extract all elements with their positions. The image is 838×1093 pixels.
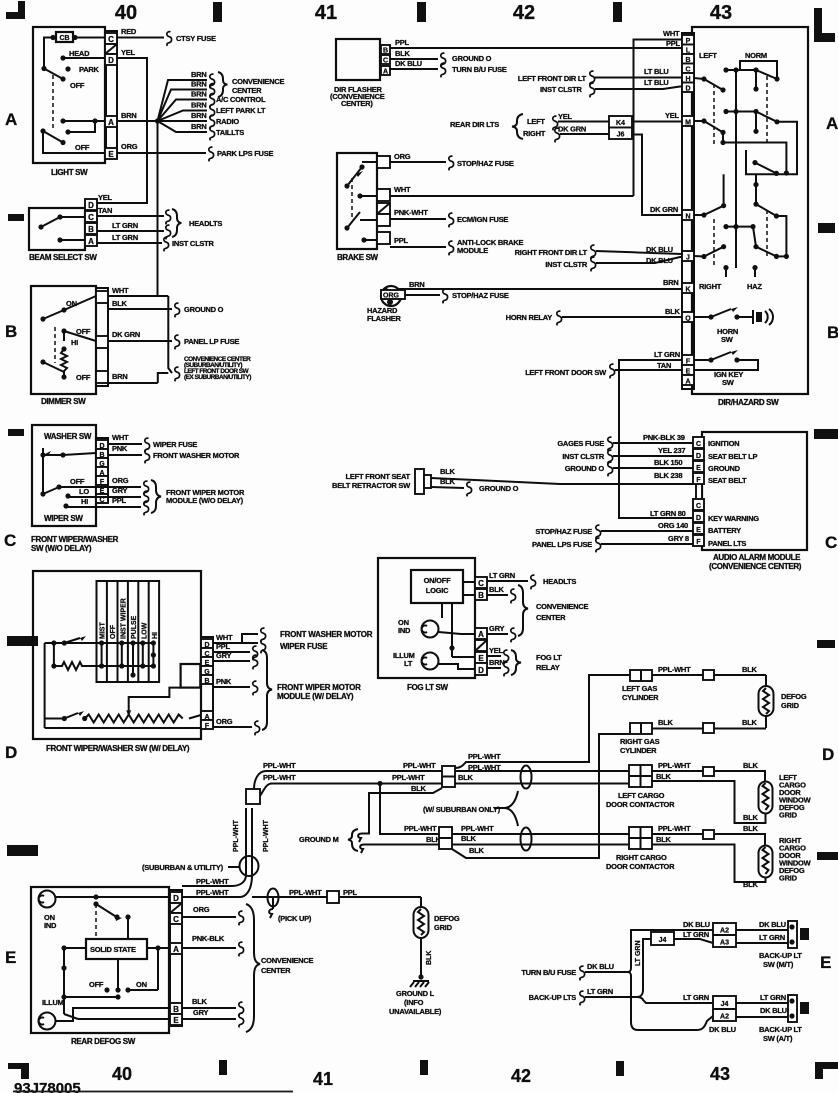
svg-text:42: 42 xyxy=(513,2,535,24)
svg-text:PARK: PARK xyxy=(79,65,100,74)
svg-text:C: C xyxy=(383,58,388,65)
svg-text:PNK-BLK: PNK-BLK xyxy=(192,934,225,943)
svg-text:K: K xyxy=(685,287,690,294)
svg-text:INST CLSTR: INST CLSTR xyxy=(172,239,214,248)
svg-text:PANEL LP FUSE: PANEL LP FUSE xyxy=(184,337,239,346)
svg-text:INST CLSTR: INST CLSTR xyxy=(540,85,582,94)
svg-text:43: 43 xyxy=(710,1064,730,1084)
svg-text:WHT: WHT xyxy=(394,185,411,194)
svg-text:B: B xyxy=(383,48,388,55)
svg-text:BELT RETRACTOR SW: BELT RETRACTOR SW xyxy=(332,481,411,490)
svg-text:RIGHT GAS: RIGHT GAS xyxy=(620,737,660,746)
connector strip xyxy=(170,890,182,1026)
rear defog switch box xyxy=(31,887,169,1033)
svg-text:YEL: YEL xyxy=(558,112,573,121)
svg-text:YEL: YEL xyxy=(121,48,136,57)
pin group 2 xyxy=(693,499,704,510)
svg-text:FRONT WIPER/WASHER: FRONT WIPER/WASHER xyxy=(31,535,119,544)
backup switch A/T xyxy=(788,995,797,1022)
svg-text:40: 40 xyxy=(115,2,137,24)
A contacts xyxy=(60,118,65,123)
svg-text:WASHER SW: WASHER SW xyxy=(44,432,92,441)
svg-text:C: C xyxy=(4,531,16,550)
svg-text:BLK: BLK xyxy=(743,813,758,822)
ground L symbol xyxy=(418,974,423,979)
pin A xyxy=(85,235,97,246)
svg-text:LOW: LOW xyxy=(142,622,149,639)
svg-text:41: 41 xyxy=(313,1069,333,1089)
svg-text:PPL-WHT: PPL-WHT xyxy=(404,824,437,833)
svg-text:C: C xyxy=(108,35,114,44)
svg-text:ORG: ORG xyxy=(216,717,233,726)
svg-text:PPL-WHT: PPL-WHT xyxy=(468,752,501,761)
svg-text:E: E xyxy=(173,1016,179,1025)
pin group 1 xyxy=(696,440,702,542)
svg-text:E: E xyxy=(696,465,701,472)
svg-text:SW: SW xyxy=(722,378,735,387)
svg-text:HI: HI xyxy=(152,632,159,639)
pick up branch xyxy=(268,889,279,907)
svg-text:REAR DEFOG SW: REAR DEFOG SW xyxy=(71,1037,136,1046)
svg-text:PPL: PPL xyxy=(216,642,231,651)
svg-text:GRY: GRY xyxy=(112,486,127,495)
svg-text:PPL-WHT: PPL-WHT xyxy=(658,665,691,674)
svg-text:YEL: YEL xyxy=(98,193,113,202)
svg-text:E: E xyxy=(696,527,701,534)
svg-text:E: E xyxy=(820,953,831,972)
svg-text:PNK: PNK xyxy=(216,677,232,686)
svg-text:LT: LT xyxy=(404,659,413,668)
svg-text:BLK: BLK xyxy=(743,880,758,889)
svg-text:PPL: PPL xyxy=(343,888,358,897)
svg-text:B: B xyxy=(478,591,484,600)
svg-text:BACK-UP LTS: BACK-UP LTS xyxy=(529,993,577,1002)
svg-text:ORG: ORG xyxy=(383,293,400,300)
svg-text:LO: LO xyxy=(79,487,89,496)
svg-text:CENTER): CENTER) xyxy=(341,99,373,108)
svg-text:STOP/HAZ FUSE: STOP/HAZ FUSE xyxy=(452,291,509,300)
svg-text:LEFT CARGO: LEFT CARGO xyxy=(618,791,665,800)
svg-text:A: A xyxy=(383,69,388,76)
strip verticals xyxy=(101,643,103,666)
svg-text:OFF: OFF xyxy=(75,143,90,152)
interior xyxy=(344,183,349,188)
svg-text:BLK: BLK xyxy=(656,772,671,781)
inline connector xyxy=(327,891,339,903)
svg-text:BLK 150: BLK 150 xyxy=(654,458,682,467)
ON IND lamp xyxy=(39,891,56,908)
svg-text:WIPER FUSE: WIPER FUSE xyxy=(280,642,328,651)
svg-text:LEFT GAS: LEFT GAS xyxy=(622,684,657,693)
svg-text:LT GRN: LT GRN xyxy=(112,233,138,242)
svg-text:WIPER SW: WIPER SW xyxy=(44,514,83,523)
svg-text:WHT: WHT xyxy=(216,633,233,642)
connector strip xyxy=(106,31,117,158)
svg-text:BRN: BRN xyxy=(409,280,425,289)
svg-text:LT GRN: LT GRN xyxy=(760,993,786,1002)
svg-text:C: C xyxy=(825,533,837,552)
svg-text:DK BLU: DK BLU xyxy=(709,1025,736,1034)
LEFT CARGO DOOR CONTACTOR xyxy=(629,765,652,787)
svg-text:LT GRN: LT GRN xyxy=(112,221,138,230)
svg-text:ECM/IGN FUSE: ECM/IGN FUSE xyxy=(457,215,508,224)
svg-text:(EX SUBURBAN/UTILITY): (EX SUBURBAN/UTILITY) xyxy=(184,374,251,381)
svg-text:WIPER FUSE: WIPER FUSE xyxy=(153,440,197,449)
svg-text:(W/ SUBURBAN ONLY): (W/ SUBURBAN ONLY) xyxy=(423,805,501,814)
svg-text:LT GRN: LT GRN xyxy=(683,930,709,939)
svg-text:LT BLU: LT BLU xyxy=(644,78,669,87)
svg-text:(CONVENIENCE CENTER): (CONVENIENCE CENTER) xyxy=(709,562,802,571)
RIGHT CARGO DOOR CONTACTOR xyxy=(629,827,652,849)
svg-text:IND: IND xyxy=(44,921,57,930)
svg-text:REAR DIR LTS: REAR DIR LTS xyxy=(450,120,499,129)
svg-text:BLK: BLK xyxy=(395,49,410,58)
svg-text:J: J xyxy=(686,255,690,262)
ign key switch on F xyxy=(694,359,711,361)
corner mark top-right xyxy=(814,8,835,42)
svg-text:PPL-WHT: PPL-WHT xyxy=(233,819,240,852)
brake switch box xyxy=(337,153,377,249)
svg-text:GRY: GRY xyxy=(193,1008,208,1017)
J4/A2 connector (A/T) xyxy=(713,996,736,1021)
svg-text:FRONT WASHER MOTOR: FRONT WASHER MOTOR xyxy=(280,630,373,639)
svg-text:PNK: PNK xyxy=(112,444,128,453)
pin C xyxy=(85,211,97,222)
svg-text:DK GRN: DK GRN xyxy=(558,125,586,134)
svg-text:DEFOG: DEFOG xyxy=(434,914,460,923)
svg-text:BACK-UP LT: BACK-UP LT xyxy=(759,951,802,960)
svg-text:RIGHT: RIGHT xyxy=(699,282,722,291)
branch up to left gas cylinder xyxy=(455,675,630,768)
svg-text:GROUND O: GROUND O xyxy=(184,305,224,314)
svg-text:LT BLU: LT BLU xyxy=(644,67,669,76)
svg-text:INST CLSTR: INST CLSTR xyxy=(562,452,604,461)
svg-text:STOP/HAZ FUSE: STOP/HAZ FUSE xyxy=(535,527,592,536)
svg-text:RED: RED xyxy=(121,27,137,36)
ILLUM lamp xyxy=(39,1013,56,1030)
LT GRN vertical xyxy=(637,939,651,997)
svg-text:BLK: BLK xyxy=(742,718,757,727)
svg-text:BLK: BLK xyxy=(112,299,127,308)
svg-text:N: N xyxy=(685,214,690,221)
vertical to convenience hook xyxy=(168,296,172,373)
svg-text:C: C xyxy=(696,503,701,510)
svg-text:STOP/HAZ FUSE: STOP/HAZ FUSE xyxy=(457,159,514,168)
DK BLU vertical xyxy=(628,930,713,972)
corner mark top-left xyxy=(6,1,25,19)
svg-text:DK BLU: DK BLU xyxy=(587,962,614,971)
svg-text:MIST: MIST xyxy=(100,622,107,639)
w/suburban oval upper xyxy=(521,766,532,789)
svg-text:(PICK UP): (PICK UP) xyxy=(278,914,312,923)
row2 xyxy=(723,109,728,114)
SOLID STATE box xyxy=(86,939,147,959)
svg-text:BRN: BRN xyxy=(191,101,207,110)
svg-text:C: C xyxy=(88,213,94,222)
BRN fanout wires xyxy=(158,80,208,121)
right edge dashes xyxy=(818,223,835,233)
svg-text:A: A xyxy=(173,945,179,954)
svg-text:BLK: BLK xyxy=(461,834,476,843)
svg-text:BLK: BLK xyxy=(665,307,680,316)
svg-text:YEL: YEL xyxy=(665,111,680,120)
svg-text:E: E xyxy=(478,654,484,663)
svg-text:LEFT FRONT DIR LT: LEFT FRONT DIR LT xyxy=(518,74,587,83)
svg-text:B: B xyxy=(5,322,17,341)
svg-text:DK GRN: DK GRN xyxy=(650,205,678,214)
svg-text:SW (A/T): SW (A/T) xyxy=(763,1034,793,1043)
svg-text:BLK 238: BLK 238 xyxy=(654,471,682,480)
switch arm upper xyxy=(41,66,46,71)
svg-text:A: A xyxy=(88,237,94,246)
svg-text:BLK: BLK xyxy=(411,784,426,793)
svg-text:GROUND O: GROUND O xyxy=(565,464,605,473)
svg-text:CENTER: CENTER xyxy=(261,966,291,975)
svg-text:PNK-BLK 39: PNK-BLK 39 xyxy=(643,433,685,442)
svg-text:D: D xyxy=(88,201,94,210)
svg-text:A: A xyxy=(685,379,690,386)
RIGHT GAS CYLINDER xyxy=(630,723,652,734)
svg-text:OFF: OFF xyxy=(70,477,85,486)
svg-text:DOOR CONTACTOR: DOOR CONTACTOR xyxy=(606,800,675,809)
front wiper/washer switch (w/ delay) box xyxy=(33,571,201,739)
svg-text:PPL-WHT: PPL-WHT xyxy=(196,888,229,897)
wire CB to C xyxy=(75,37,105,39)
svg-text:F: F xyxy=(205,723,210,730)
svg-text:D: D xyxy=(685,86,690,93)
svg-text:BLK: BLK xyxy=(426,951,433,965)
brace headlts xyxy=(172,209,182,237)
svg-text:DK BLU: DK BLU xyxy=(759,920,786,929)
svg-text:FRONT WASHER MOTOR: FRONT WASHER MOTOR xyxy=(153,451,240,460)
svg-text:F: F xyxy=(696,539,701,546)
svg-text:ORG: ORG xyxy=(121,142,138,151)
svg-text:TAN: TAN xyxy=(657,361,671,370)
interior wires xyxy=(463,581,475,583)
svg-text:BLK: BLK xyxy=(743,824,758,833)
svg-text:DK BLU: DK BLU xyxy=(646,245,673,254)
side rect xyxy=(181,664,201,688)
svg-text:PPL-WHT: PPL-WHT xyxy=(263,761,296,770)
brace wiper motor module xyxy=(151,480,161,513)
svg-text:LEFT: LEFT xyxy=(527,117,545,126)
svg-text:40: 40 xyxy=(112,1064,132,1084)
svg-text:C: C xyxy=(99,497,104,504)
suburban/utility oval xyxy=(240,856,259,876)
svg-text:GRY: GRY xyxy=(489,624,504,633)
pins xyxy=(475,577,487,588)
svg-text:PPL-WHT: PPL-WHT xyxy=(468,763,501,772)
interior washer xyxy=(40,452,45,457)
fog light switch box xyxy=(378,558,475,678)
svg-text:WHT: WHT xyxy=(112,433,129,442)
svg-text:BRAKE SW: BRAKE SW xyxy=(337,253,379,262)
grid contacts row2 xyxy=(99,663,104,668)
head contact xyxy=(60,55,65,60)
vertical BRN junction line down to dimmer xyxy=(157,121,159,297)
svg-text:HEADLTS: HEADLTS xyxy=(543,577,576,586)
svg-text:BRN: BRN xyxy=(489,658,505,667)
inline connector lower xyxy=(439,827,452,849)
svg-text:LEFT PARK LT: LEFT PARK LT xyxy=(216,106,266,115)
svg-text:IGNITION: IGNITION xyxy=(708,439,739,448)
svg-text:B: B xyxy=(204,678,209,685)
svg-text:GRID: GRID xyxy=(781,701,800,710)
connector strip xyxy=(96,288,108,386)
svg-text:A: A xyxy=(478,630,484,639)
svg-text:LT GRN: LT GRN xyxy=(683,993,709,1002)
J4 connector (M/T) xyxy=(651,932,674,945)
interior wiring xyxy=(56,896,171,898)
svg-text:BEAM SELECT SW: BEAM SELECT SW xyxy=(29,253,97,262)
svg-text:DEFOG: DEFOG xyxy=(781,692,807,701)
bottom wire to F xyxy=(45,727,201,729)
circuit breaker CB xyxy=(56,32,73,42)
svg-text:HAZ: HAZ xyxy=(747,282,762,291)
svg-text:DIR/HAZARD SW: DIR/HAZARD SW xyxy=(718,398,779,407)
dir flasher box xyxy=(336,39,380,80)
top ticks xyxy=(213,2,222,22)
svg-text:LT GRN: LT GRN xyxy=(587,987,613,996)
svg-text:BLK: BLK xyxy=(489,585,504,594)
svg-text:BLK: BLK xyxy=(743,761,758,770)
svg-text:IND: IND xyxy=(398,626,411,635)
svg-text:PPL-WHT: PPL-WHT xyxy=(263,773,296,782)
pin E xyxy=(105,148,117,159)
svg-text:OFF: OFF xyxy=(89,980,104,989)
pivot to E wire xyxy=(43,131,105,153)
svg-text:D: D xyxy=(5,743,17,762)
pin D xyxy=(85,199,97,210)
w/suburban oval lower xyxy=(521,828,532,851)
svg-text:PPL-WHT: PPL-WHT xyxy=(658,824,691,833)
svg-text:BRN: BRN xyxy=(191,122,207,131)
audio alarm module box xyxy=(702,432,807,550)
svg-text:ON/OFF: ON/OFF xyxy=(424,576,451,585)
svg-text:BLK: BLK xyxy=(192,997,207,1006)
svg-text:PPL: PPL xyxy=(394,236,409,245)
svg-text:LEFT FRONT SEAT: LEFT FRONT SEAT xyxy=(346,472,411,481)
svg-text:D: D xyxy=(696,453,701,460)
backup switch M/T xyxy=(788,921,797,948)
svg-text:GROUND M: GROUND M xyxy=(299,835,339,844)
svg-text:C: C xyxy=(696,441,701,448)
svg-text:FLASHER: FLASHER xyxy=(367,314,402,323)
svg-text:Q: Q xyxy=(685,316,691,323)
PPL-WHT trunk from rear defog connector xyxy=(254,771,442,789)
svg-text:F: F xyxy=(696,477,701,484)
svg-text:SEAT BELT LP: SEAT BELT LP xyxy=(708,452,757,461)
svg-text:LT GRN: LT GRN xyxy=(635,940,642,966)
svg-text:PANEL LPS FUSE: PANEL LPS FUSE xyxy=(532,540,592,549)
PPL-WHT down branch xyxy=(380,784,439,835)
dimmer switch box xyxy=(31,286,96,394)
on/off logic box xyxy=(411,570,463,603)
svg-text:CENTER: CENTER xyxy=(232,86,262,95)
svg-text:CYLINDER: CYLINDER xyxy=(620,746,657,755)
svg-text:GRY: GRY xyxy=(216,651,231,660)
long center vertical xyxy=(735,70,737,268)
svg-text:GRY 8: GRY 8 xyxy=(668,534,689,543)
svg-text:MODULE (W/O DELAY): MODULE (W/O DELAY) xyxy=(166,496,244,505)
svg-text:BLK: BLK xyxy=(656,835,671,844)
svg-text:RADIO: RADIO xyxy=(216,117,239,126)
svg-text:ORG: ORG xyxy=(112,476,129,485)
pulse wiper arrow path xyxy=(129,688,181,711)
svg-text:K4: K4 xyxy=(616,120,625,127)
svg-text:J4: J4 xyxy=(659,937,667,944)
svg-text:SW (M/T): SW (M/T) xyxy=(763,960,794,969)
lower quad xyxy=(701,212,706,217)
svg-text:DK GRN: DK GRN xyxy=(112,330,140,339)
svg-text:RELAY: RELAY xyxy=(536,663,560,672)
svg-text:A3: A3 xyxy=(720,940,729,947)
svg-text:C: C xyxy=(478,579,484,588)
svg-text:TAN: TAN xyxy=(98,206,112,215)
svg-text:DOOR CONTACTOR: DOOR CONTACTOR xyxy=(606,862,675,871)
svg-text:(SUBURBAN & UTILITY): (SUBURBAN & UTILITY) xyxy=(142,863,224,872)
svg-text:SOLID STATE: SOLID STATE xyxy=(90,945,136,954)
rheostat row xyxy=(62,716,67,721)
svg-text:GROUND L: GROUND L xyxy=(396,989,435,998)
svg-text:KEY WARNING: KEY WARNING xyxy=(708,514,759,523)
brace module w/ delay xyxy=(262,650,272,730)
wire CB left down to pivot xyxy=(44,38,53,69)
svg-text:D: D xyxy=(173,894,179,903)
svg-text:CONVENIENCE: CONVENIENCE xyxy=(536,602,589,611)
svg-text:LT GRN 80: LT GRN 80 xyxy=(650,509,686,518)
svg-text:CENTER: CENTER xyxy=(536,613,566,622)
retractor connector xyxy=(415,469,424,494)
svg-text:BLK: BLK xyxy=(658,718,673,727)
svg-text:PANEL LTS: PANEL LTS xyxy=(708,539,746,548)
svg-text:HORN RELAY: HORN RELAY xyxy=(506,313,553,322)
svg-text:HEAD: HEAD xyxy=(69,49,90,58)
svg-text:LT GRN: LT GRN xyxy=(759,933,785,942)
svg-text:BLK: BLK xyxy=(440,477,455,486)
svg-text:CB: CB xyxy=(59,35,69,42)
interior left xyxy=(45,642,97,644)
pin D xyxy=(105,54,117,65)
svg-text:E: E xyxy=(108,150,114,159)
svg-text:B: B xyxy=(173,1005,179,1014)
svg-text:J6: J6 xyxy=(617,132,625,139)
connector pins D C E G B / A F xyxy=(201,637,213,727)
svg-text:DIMMER SW: DIMMER SW xyxy=(41,397,86,406)
svg-text:TURN B/U FUSE: TURN B/U FUSE xyxy=(521,968,576,977)
pin A xyxy=(105,116,117,127)
brace convenience center xyxy=(218,72,228,97)
svg-text:WHT: WHT xyxy=(112,286,129,295)
svg-text:BRN: BRN xyxy=(191,90,207,99)
svg-text:MODULE (W/ DELAY): MODULE (W/ DELAY) xyxy=(277,692,354,701)
middle web xyxy=(723,143,786,174)
dir/hazard switch box xyxy=(692,27,808,394)
big brace convenience center xyxy=(246,904,260,1032)
svg-text:A: A xyxy=(108,118,114,127)
horn switch on Q xyxy=(694,316,711,318)
svg-text:CTSY FUSE: CTSY FUSE xyxy=(176,34,216,43)
svg-text:SW (W/O DELAY): SW (W/O DELAY) xyxy=(31,544,92,553)
svg-text:CONVENIENCE: CONVENIENCE xyxy=(232,77,285,86)
defog grid (bottom) xyxy=(420,897,422,907)
svg-text:M: M xyxy=(685,120,691,127)
svg-text:A2: A2 xyxy=(720,928,729,935)
svg-text:PPL-WHT: PPL-WHT xyxy=(263,819,270,852)
svg-text:BRN: BRN xyxy=(112,372,128,381)
svg-text:E: E xyxy=(5,948,16,967)
main PPL wire right xyxy=(252,896,327,898)
